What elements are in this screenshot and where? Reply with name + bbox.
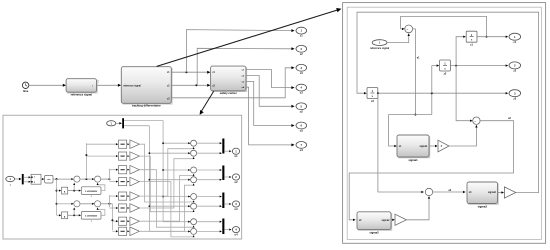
wire sigma3 to gain F3 [498, 192, 504, 194]
wire sigma2 to gain F2 [391, 219, 394, 221]
wire bar vertical to sum 4 left [149, 179, 189, 181]
row 1 lookup block [119, 140, 127, 148]
wire bus to row 1 block [86, 143, 117, 145]
wire sum 7 to mux [197, 221, 222, 223]
svg-text:sigma3: sigma3 [488, 192, 497, 194]
wire bus to row 3 block [109, 169, 117, 171]
sum circle row 2 [191, 150, 197, 156]
svg-text:sigma2: sigma2 [381, 220, 390, 222]
gain triangle F1 [438, 140, 449, 152]
outport 4 'u1' [296, 84, 307, 91]
wire e1: S1 out down to junction [413, 29, 416, 115]
wire bus to row 6 block [109, 207, 117, 209]
wire sigma1 to gain F1 [429, 145, 437, 147]
inport oval left '1' [6, 176, 15, 181]
wire row 1 block to gain [127, 143, 129, 145]
wire row 5 block to gain [127, 195, 129, 197]
wire bar vertical to sum 1 left [163, 142, 189, 144]
svg-text:reference signal: reference signal [123, 85, 141, 87]
outport 7 'u4' [296, 142, 307, 149]
wire sum D out to row feeds c d [101, 203, 113, 205]
svg-text:sigma2: sigma2 [369, 230, 379, 234]
wire inport left to demux [15, 178, 21, 180]
wire sum 2 to mux [197, 152, 222, 154]
row 8 lookup block [119, 227, 127, 235]
outport z2 [509, 62, 521, 69]
outport 2 'z2' [296, 45, 307, 52]
transfer fcn block 2 [81, 212, 101, 220]
row 5 lookup block [119, 192, 127, 200]
sum circle B [95, 176, 101, 182]
row 3 gain triangle [130, 165, 140, 174]
row 2 lookup block [119, 152, 127, 160]
block sigma1 [398, 136, 430, 158]
wire bus to row 4 block [109, 181, 117, 183]
function block sin [45, 175, 53, 183]
clock block 'time' [22, 82, 28, 88]
panel outport 4 [232, 227, 239, 233]
outport z1 [509, 33, 521, 40]
wire sum B out to row feed b [101, 178, 110, 180]
wire e3: S3 out to sigma3 [433, 191, 465, 193]
sum circle row 1 [191, 140, 197, 146]
wire safety center port4 to outport 7 [246, 87, 293, 145]
sum circle row 4 [191, 177, 197, 183]
row 6 gain triangle [130, 204, 140, 213]
row 3 lookup block [119, 166, 127, 174]
panel outport 1 [232, 148, 239, 154]
wire sum 3 to mux [197, 169, 222, 171]
outport 6 'u3' [296, 122, 307, 129]
tap z3 up to integrator z2 [432, 66, 438, 94]
wire gain row 2 to sum 6 bottom [139, 156, 193, 212]
svg-text:reference signal: reference signal [71, 93, 93, 97]
wire mux 4 to outport [224, 229, 230, 231]
row feed vertical c [108, 195, 110, 207]
row feed vertical a [85, 143, 87, 179]
sum circle S3 [425, 188, 432, 195]
tap vertical to lower chain [56, 179, 58, 215]
block tracking differentiator [123, 68, 173, 104]
svg-text:1: 1 [34, 177, 35, 179]
svg-text:3.1415926536: 3.1415926536 [85, 215, 97, 218]
wire top demux branch 1 [124, 120, 163, 122]
svg-text:2: 2 [34, 182, 35, 184]
wire bus to row 7 block [112, 220, 117, 222]
svg-text:sigma1: sigma1 [419, 146, 428, 148]
right subsystem panel inner frame [347, 7, 541, 239]
wire bus to row 5 block [109, 195, 117, 197]
wire z3: TD under safety center up to outport 3 [171, 68, 292, 98]
wire z1 out to outport [477, 36, 507, 38]
row 7 lookup block [119, 217, 127, 225]
panel outport 3 [232, 201, 239, 207]
bottom subsystem panel frame [3, 115, 242, 239]
row 8 gain triangle [130, 227, 140, 236]
wire row 6 block to gain [127, 207, 129, 209]
outport z3 [509, 90, 521, 97]
wire a1 to transfer fcn 1, branch up to sum A [68, 190, 81, 192]
tap z2 up to integrator z1 [456, 37, 465, 66]
inport oval reference signal [372, 40, 387, 46]
wire reference oval to sum S1 bottom [387, 34, 409, 42]
wire z3 out with taps [378, 92, 507, 94]
wire sum 1 to mux [197, 142, 222, 144]
gain block a1 [62, 187, 68, 194]
mux bar 3 [222, 193, 224, 209]
wire mux 1 to outport [224, 150, 230, 152]
tap z3 down to sum S3 [378, 93, 423, 192]
wire gain F1 up to sum S2 bottom [449, 126, 476, 146]
wire bus to row 2 block [86, 155, 117, 157]
wire selector to function block [41, 178, 43, 180]
sum circle C [74, 201, 80, 207]
wire sum 6 to mux [197, 205, 222, 207]
wire bar vertical to sum 6 left [149, 205, 189, 207]
gain triangle F2 [395, 214, 406, 225]
selector block [31, 174, 41, 184]
wire u loop: gain F3 back to integrator z3 [357, 12, 539, 192]
sum circle A [74, 176, 80, 182]
wire sum C to sum D [80, 203, 93, 205]
gain triangle F3 [504, 187, 515, 198]
wire sum 5 to mux [197, 196, 222, 198]
wire safety center port2 to outport 5 [246, 76, 293, 107]
wire safety center port1 to outport 4 [246, 70, 293, 88]
wire sum A to sum B [80, 178, 93, 180]
wire reference signal to tracking differentiator [97, 84, 121, 86]
wire row 7 block to gain [127, 220, 129, 222]
svg-text:3.1415926536: 3.1415926536 [85, 190, 97, 193]
junction on sum A-B wire feeding rows 1-2 [85, 178, 87, 180]
wire gain row 1 to sum 5 bottom [139, 144, 193, 202]
wire bar vertical to sum 5 left [163, 196, 189, 198]
wire gain F2 up to sum S3 bottom [406, 197, 429, 220]
outport 5 'u2' [296, 103, 307, 110]
block sigma2 [358, 213, 392, 230]
wire transfer fcn 1 hook to sum B bottom [98, 183, 105, 190]
wire mux 3 to outport [224, 203, 230, 205]
wire gain row 6 to sum 2 bottom [139, 158, 193, 209]
tap z2 down to sum S2 [456, 66, 472, 121]
wire safety center port3 to outport 6 [246, 81, 293, 125]
sum circle row 5 [191, 194, 197, 200]
wire top demux branch 2 [124, 125, 149, 127]
integrator block z2 [440, 60, 451, 71]
wire bar vertical to sum 7 left [163, 221, 189, 223]
wire gain row 7 to sum 3 bottom [139, 174, 193, 221]
wire gain row 8 to sum 4 bottom [139, 184, 193, 231]
integrator block z3 [367, 88, 378, 99]
sum circle D [95, 201, 101, 207]
annotation arrow safety center to bottom panel [201, 91, 214, 112]
right subsystem panel outer frame [343, 3, 546, 244]
wire function block to sum A with tap junction [53, 178, 73, 180]
demux bar top [122, 118, 124, 128]
wire mux 2 to outport [224, 176, 230, 178]
block reference signal [67, 80, 97, 93]
mux bar 4 [222, 219, 224, 235]
wire bar vertical to sum 2 left [149, 152, 189, 154]
svg-text:time: time [23, 89, 29, 93]
wire e2: S2 out around to sigma2 [349, 121, 513, 220]
row 5 gain triangle [130, 192, 140, 201]
outport 3 'z3' [296, 64, 307, 71]
inport oval top '1' [107, 121, 116, 126]
wire bar vertical to sum 3 left [163, 169, 189, 171]
wire z3 branch down to x1 junction [431, 93, 433, 114]
svg-text:reference signal: reference signal [370, 47, 389, 50]
sum circle row 8 [191, 228, 197, 234]
svg-text:sigma3: sigma3 [478, 204, 488, 208]
wire tap to gain a2 [57, 214, 61, 216]
sum circle row 7 [191, 219, 197, 225]
wire transfer fcn 2 hook to sum D bottom [98, 208, 105, 215]
sum circle row 3 [191, 167, 197, 173]
demux bar left [22, 174, 24, 184]
wire bus to row 8 block [112, 230, 117, 232]
row 7 gain triangle [130, 217, 140, 226]
wire sum 4 to mux [197, 179, 222, 181]
transfer fcn block 1 [81, 187, 101, 195]
panel outport 2 [232, 174, 239, 180]
block sigma3 [468, 183, 498, 204]
wire z2: TD to safety center, junction riser to outport 2 [171, 84, 209, 86]
bar feed vertical left (even circles) [148, 126, 150, 232]
gain block a2 [62, 212, 68, 219]
mux bar 1 [222, 139, 224, 154]
row 2 gain triangle [130, 152, 140, 161]
sum circle S1 [405, 25, 413, 33]
wire a2 to transfer fcn 2, branch up to sum C [68, 214, 81, 216]
wire row 2 block to gain [127, 155, 129, 157]
sum circle S2 [473, 117, 480, 124]
wire gain row 3 to sum 7 bottom [139, 170, 193, 228]
wire bar vertical to sum 8 left [149, 230, 189, 232]
row 4 lookup block [119, 178, 127, 186]
row 1 gain triangle [130, 140, 140, 149]
wire row 4 block to gain [127, 181, 129, 183]
integrator block z1 [466, 31, 477, 42]
wire sum 8 to mux [197, 230, 222, 232]
wire x1 horizontal into sigma1 [389, 115, 432, 146]
svg-text:tracking differentiator: tracking differentiator [132, 103, 162, 107]
row feed vertical d [111, 204, 113, 231]
wire tap to sum C [57, 203, 73, 205]
wire tap to gain a1 [57, 190, 61, 192]
wire demux to selector block port2 [24, 181, 30, 183]
wire inport top to demux [116, 122, 121, 124]
wire demux to selector block port1 [24, 176, 30, 178]
annotation arrow TD to right panel [157, 10, 339, 67]
wire z1: TD to safety center, junction riser to outport 1 [171, 71, 209, 73]
row 4 gain triangle [130, 177, 140, 186]
wire clock to reference signal [29, 84, 65, 86]
wire row 3 block to gain [127, 169, 129, 171]
feedback loop z1 to S1 [401, 16, 487, 36]
row feed vertical b [108, 169, 110, 181]
wire gain row 4 to sum 8 bottom [139, 182, 193, 237]
row 6 lookup block [119, 204, 127, 212]
wire gain row 5 to sum 1 bottom [139, 148, 193, 197]
svg-text:safety center: safety center [220, 91, 238, 95]
bar feed vertical right (odd circles) [162, 121, 164, 222]
outport 1 'z1' [296, 27, 307, 34]
mux bar 2 [222, 166, 224, 181]
wire row 8 block to gain [127, 230, 129, 232]
svg-text:sigma1: sigma1 [408, 158, 418, 162]
wire z2 out with junction [450, 65, 506, 67]
sum circle row 6 [191, 203, 197, 209]
block safety center [212, 67, 247, 91]
